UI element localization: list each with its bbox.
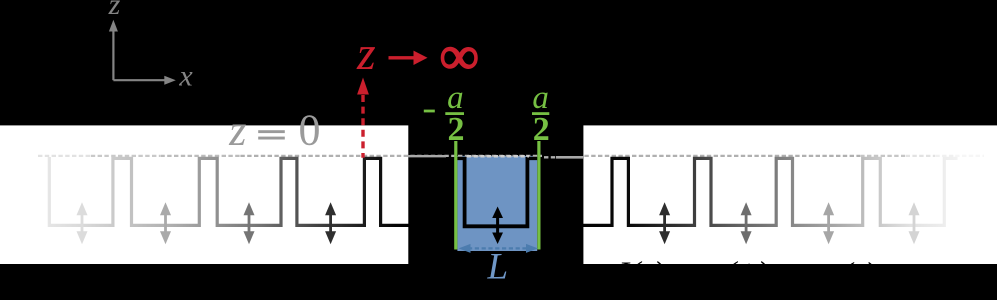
svg-text:z: z — [356, 27, 376, 80]
label +a/2 — [532, 80, 550, 148]
oscillation arrow central well (black) — [492, 207, 503, 245]
oscillation arrow well L4 — [325, 202, 336, 244]
svg-text:2: 2 — [533, 111, 550, 148]
red arrow to infinity: dashed shaft — [361, 95, 364, 158]
white slab band left — [0, 125, 408, 264]
oscillation arrow well R5 (faint) — [909, 202, 920, 244]
oscillation arrow well R2 — [659, 202, 670, 244]
solid level segment over right gap — [556, 156, 584, 159]
solid level segment over left gap — [408, 155, 446, 157]
red arrowhead — [357, 78, 369, 95]
green boundary line +a/2 — [537, 141, 540, 250]
oscillation arrow well R4 — [823, 202, 834, 244]
svg-text:z: z — [228, 106, 246, 155]
oscillation arrow well R3 — [741, 202, 752, 244]
green boundary line -a/2 — [454, 141, 457, 250]
oscillation arrow well L2 — [160, 202, 171, 244]
periodic square-well potential, left slab (fading outward) — [49, 157, 409, 225]
coordinate axes (gray) — [109, 20, 176, 85]
unit-cell blue fill — [457, 156, 537, 251]
oscillation arrow well L3 — [244, 202, 255, 244]
svg-text:x: x — [178, 60, 193, 93]
svg-text:0: 0 — [299, 106, 321, 155]
white slab band right — [583, 125, 997, 264]
z = 0 dashed level line — [38, 155, 90, 157]
svg-text:L: L — [487, 246, 509, 287]
svg-text:2: 2 — [448, 111, 465, 148]
svg-text:z: z — [108, 0, 121, 21]
svg-text:∞: ∞ — [440, 26, 479, 86]
svg-text:J(z): J(z) — [614, 256, 665, 293]
central well outline U0 — [456, 157, 539, 160]
periodic square-well potential, right slab (fading outward) — [582, 158, 958, 225]
svg-text:(ψ): (ψ) — [725, 256, 769, 293]
label -a/2 — [424, 80, 465, 148]
oscillation arrow well L1 — [77, 202, 88, 244]
width arrow L (dashed blue, double-headed) — [459, 244, 538, 253]
svg-text:(z): (z) — [842, 255, 876, 291]
